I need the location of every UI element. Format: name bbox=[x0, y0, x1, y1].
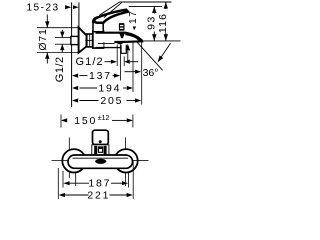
angle leader arrowhead bbox=[158, 56, 164, 63]
dimension 205 bbox=[72, 98, 78, 102]
left escutcheon circle bbox=[62, 149, 85, 172]
body bar inner line bbox=[73, 157, 129, 159]
svg-text:116: 116 bbox=[157, 13, 169, 33]
union nut mid line bbox=[85, 39, 92, 41]
dimension 221 bbox=[59, 193, 65, 197]
extension line 194 bbox=[132, 42, 134, 92]
extension line small dim right bbox=[123, 57, 125, 67]
mixer body fill bbox=[96, 33, 143, 48]
handle base left block bbox=[94, 146, 97, 155]
Ø71 extension line top bbox=[37, 27, 78, 29]
dimension 93 bottom arrow bbox=[152, 34, 156, 41]
dimension 15-23 arrow to wall min bbox=[65, 5, 71, 9]
extension line 221 left bbox=[57, 168, 59, 199]
dimension 116 line top segment bbox=[165, 2, 167, 9]
right escutcheon circle bbox=[114, 149, 137, 172]
dimension 137 bbox=[72, 74, 78, 78]
extension line 187 left bbox=[62, 171, 64, 188]
Ø71 upper arrow bbox=[46, 15, 48, 28]
dimension 116 bottom arrow bbox=[164, 34, 168, 41]
inlet nipple bbox=[71, 36, 79, 44]
dimension 150 extension line left bbox=[60, 115, 62, 128]
body parting line bbox=[98, 42, 115, 44]
handle front view blade bbox=[93, 130, 109, 144]
dimension 150 left arrow bbox=[61, 118, 67, 122]
dimension 194 bbox=[72, 86, 78, 90]
G1/2 thread lower arrow bbox=[61, 44, 63, 52]
handle dot bbox=[99, 140, 102, 143]
handle base right block bbox=[104, 146, 107, 155]
svg-text:187: 187 bbox=[88, 178, 111, 190]
left crosshair horizontal bbox=[52, 160, 69, 162]
lever blade bbox=[94, 10, 128, 23]
dimension 93 line top segment bbox=[153, 6, 155, 13]
angle leader horizontal arrow bbox=[125, 71, 136, 73]
svg-text:G1/2: G1/2 bbox=[54, 56, 66, 82]
right crosshair vertical bbox=[124, 138, 126, 187]
body axis reference line bbox=[143, 40, 181, 42]
dimension 93 top arrow bbox=[152, 6, 156, 13]
diverter knob slot 1 bbox=[120, 25, 123, 26]
handle post bbox=[93, 23, 103, 32]
diverter knob slot 2 bbox=[120, 28, 123, 29]
G1/2 thread extension line bottom bbox=[55, 43, 71, 45]
extension line 205 bbox=[141, 41, 143, 105]
dimension 150 right arrow bbox=[127, 118, 133, 122]
body bottom line bbox=[96, 47, 121, 49]
small dim right arrow bbox=[124, 60, 130, 64]
svg-text:36°: 36° bbox=[143, 67, 159, 79]
diverter stem bbox=[119, 32, 125, 39]
lever extension line bbox=[137, 42, 163, 71]
body rear block bbox=[93, 31, 104, 48]
dimension 116 line bottom segment bbox=[165, 33, 167, 41]
dimension 187 bbox=[63, 181, 69, 185]
svg-text:194: 194 bbox=[98, 82, 121, 94]
svg-text:±12: ±12 bbox=[98, 115, 110, 122]
Ø71 lower arrow bbox=[46, 53, 48, 64]
raised lever line 2 bbox=[104, 2, 122, 17]
dimension 93 line bottom segment bbox=[153, 32, 155, 41]
left inner vertical bbox=[75, 156, 77, 186]
hose connection leader arrow bbox=[127, 51, 129, 62]
extension line 187 right bbox=[128, 172, 130, 188]
svg-text:17: 17 bbox=[128, 10, 139, 24]
handle dome bbox=[93, 17, 98, 23]
dimension 17 arrow bbox=[133, 27, 136, 31]
diverter knob bbox=[119, 23, 125, 31]
max height reference line bbox=[120, 1, 172, 3]
shower hose outlet bbox=[121, 45, 126, 54]
dimension 116 top arrow bbox=[164, 2, 168, 9]
handle base center band bbox=[98, 147, 102, 149]
handle base plate bbox=[92, 145, 109, 155]
union nut bbox=[87, 34, 93, 47]
extension line 137 (aerator centre) bbox=[120, 45, 122, 81]
G1/2 thread upper arrow bbox=[61, 30, 63, 38]
body bar front view bbox=[68, 155, 133, 168]
svg-text:137: 137 bbox=[89, 70, 112, 82]
raised lever line 1 bbox=[99, 2, 120, 16]
svg-text:150: 150 bbox=[74, 115, 97, 127]
svg-text:15-23: 15-23 bbox=[27, 3, 60, 14]
union nut inner line bbox=[89, 34, 91, 47]
svg-text:Ø71: Ø71 bbox=[37, 28, 49, 50]
logo oval on bar bbox=[95, 159, 106, 164]
right crosshair horizontal bbox=[133, 160, 149, 162]
svg-text:205: 205 bbox=[100, 95, 123, 107]
dimension 15-23 arrow to wall max bbox=[73, 5, 79, 9]
G1/2 thread extension line top bbox=[55, 37, 71, 39]
Ø71 extension line bottom bbox=[37, 52, 78, 54]
dimension 150 extension line right bbox=[132, 115, 134, 128]
handle top reference line bbox=[129, 5, 162, 7]
wall line A (finished wall min) bbox=[71, 3, 73, 108]
extension line 221 right bbox=[132, 161, 134, 199]
angle leader line bbox=[161, 43, 171, 57]
spout tip thick band bbox=[125, 32, 142, 41]
svg-text:221: 221 bbox=[87, 190, 110, 201]
spout outline bbox=[96, 33, 143, 42]
escutcheon cone bbox=[79, 27, 87, 52]
handle base center box bbox=[98, 147, 102, 152]
G1/2 outlet leader arrow bbox=[105, 61, 111, 63]
extension line aerator left bbox=[116, 45, 118, 67]
wall line B (finished wall max) bbox=[78, 3, 80, 28]
aerator bbox=[117, 41, 123, 44]
left crosshair vertical bbox=[68, 138, 70, 179]
svg-text:93: 93 bbox=[146, 15, 158, 30]
svg-text:G1/2: G1/2 bbox=[76, 56, 104, 68]
